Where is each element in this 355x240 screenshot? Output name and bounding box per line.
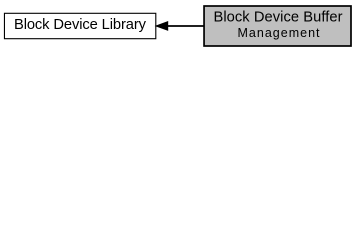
arrowhead pointing left <box>155 21 169 31</box>
svg-text:Block Device Library: Block Device Library <box>14 17 147 33</box>
svg-text:Block Device Buffer: Block Device Buffer <box>214 10 343 26</box>
node box: Block Device Library <box>4 13 155 38</box>
background <box>0 0 355 52</box>
edge wire (arrow shaft) <box>166 25 204 27</box>
svg-text:Management: Management <box>238 26 321 40</box>
node box: Block Device Buffer Management (current node, grey fill, thick border) <box>204 6 351 46</box>
